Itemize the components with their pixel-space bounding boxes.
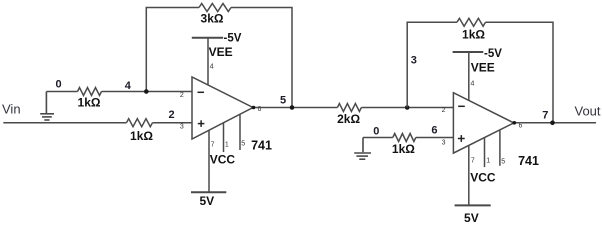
- svg-text:5: 5: [501, 158, 505, 165]
- resistor R1 3k feedback stage 1: [199, 4, 231, 12]
- op-amp U1 741 triangle: [192, 77, 253, 139]
- svg-text:741: 741: [518, 154, 539, 168]
- op-amp U2 plus sign: [458, 135, 465, 142]
- svg-text:-5V: -5V: [484, 48, 502, 60]
- svg-text:1kΩ: 1kΩ: [462, 27, 485, 41]
- svg-text:7: 7: [542, 110, 548, 122]
- svg-text:VCC: VCC: [470, 171, 496, 185]
- resistor R2 1k input stage 1: [78, 88, 102, 96]
- wire pin 7 U1 to VCC: [208, 130, 210, 192]
- wire pin 7 U2 to VCC: [468, 146, 470, 205]
- svg-text:-5V: -5V: [224, 33, 242, 45]
- svg-text:5V: 5V: [199, 194, 214, 208]
- svg-text:VEE: VEE: [209, 45, 233, 59]
- resistor R3 1k Vin series stage 1: [127, 119, 153, 127]
- wire pin 1 U1 stub: [223, 123, 225, 152]
- svg-text:6: 6: [431, 125, 437, 137]
- svg-text:0: 0: [373, 125, 379, 137]
- svg-text:1: 1: [486, 158, 490, 165]
- svg-text:3kΩ: 3kΩ: [201, 12, 224, 26]
- svg-text:0: 0: [55, 78, 61, 90]
- svg-text:1kΩ: 1kΩ: [392, 142, 415, 156]
- svg-text:5V: 5V: [464, 211, 479, 225]
- svg-text:4: 4: [125, 80, 132, 92]
- junction node 4 dot: [144, 89, 149, 94]
- ground stage 1: [40, 92, 54, 121]
- svg-text:1: 1: [225, 141, 229, 148]
- op-amp U2 minus sign: [458, 105, 465, 107]
- resistor R5 1k feedback stage 2: [457, 18, 486, 26]
- wire feedback loop stage 2 (left vertical, top run, right vertical): [407, 22, 553, 123]
- svg-text:2: 2: [168, 109, 174, 121]
- svg-text:2: 2: [442, 107, 446, 114]
- VEE supply bar stage 1: [192, 37, 223, 39]
- junction apex U1 output dot: [252, 106, 256, 110]
- resistor R6 1k stage 2 non-inverting: [393, 134, 416, 142]
- svg-text:3: 3: [411, 55, 417, 67]
- svg-text:1kΩ: 1kΩ: [78, 95, 101, 109]
- wire pin 4 U2 to VEE: [468, 52, 470, 100]
- op-amp U1 plus sign: [198, 120, 205, 127]
- svg-text:741: 741: [251, 138, 272, 152]
- wire pin 5 U1 stub: [239, 115, 241, 150]
- junction node 7 dot: [550, 121, 555, 126]
- wire pin 1 U2 stub: [484, 138, 486, 167]
- wire ground to non-inverting input stage 2: [363, 137, 453, 139]
- wire feedback loop stage 1 (left vertical, top run, right vertical): [146, 8, 292, 108]
- ground stage 2: [354, 138, 371, 160]
- VCC supply bar stage 1: [191, 191, 226, 193]
- wire stage 2 output to Vout: [514, 122, 596, 124]
- op-amp U2 741 triangle: [453, 93, 513, 153]
- wire inverting input stage 1 (node 0 to node 4 to op-amp): [46, 91, 192, 93]
- VCC supply bar stage 2: [455, 204, 491, 206]
- op-amp U1 minus sign: [198, 91, 205, 93]
- svg-text:7: 7: [471, 158, 475, 165]
- svg-text:4: 4: [210, 64, 214, 71]
- svg-text:5: 5: [241, 141, 245, 148]
- svg-text:Vin: Vin: [2, 101, 21, 116]
- wire Vin to non-inverting input stage 1: [3, 122, 192, 124]
- svg-text:VEE: VEE: [471, 61, 495, 75]
- svg-text:2: 2: [180, 92, 184, 99]
- svg-text:7: 7: [211, 142, 215, 149]
- svg-text:1kΩ: 1kΩ: [130, 129, 153, 143]
- svg-text:VCC: VCC: [210, 152, 236, 166]
- junction node 5 dot: [290, 105, 295, 110]
- wire stage 1 output to stage 2 inverting input: [253, 107, 453, 109]
- svg-text:2kΩ: 2kΩ: [337, 112, 360, 126]
- svg-text:3: 3: [442, 139, 446, 146]
- VEE supply bar stage 2: [453, 51, 484, 53]
- svg-text:4: 4: [471, 81, 475, 88]
- resistor R4 2k interstage: [337, 104, 361, 112]
- svg-text:5: 5: [280, 95, 286, 107]
- wire pin 4 U1 to VEE: [207, 38, 209, 86]
- wire pin 5 U2 stub: [499, 131, 501, 166]
- junction apex U2 output dot: [513, 121, 517, 125]
- junction node 3 dot: [405, 105, 410, 110]
- svg-text:3: 3: [180, 123, 184, 130]
- svg-text:Vout: Vout: [575, 103, 601, 118]
